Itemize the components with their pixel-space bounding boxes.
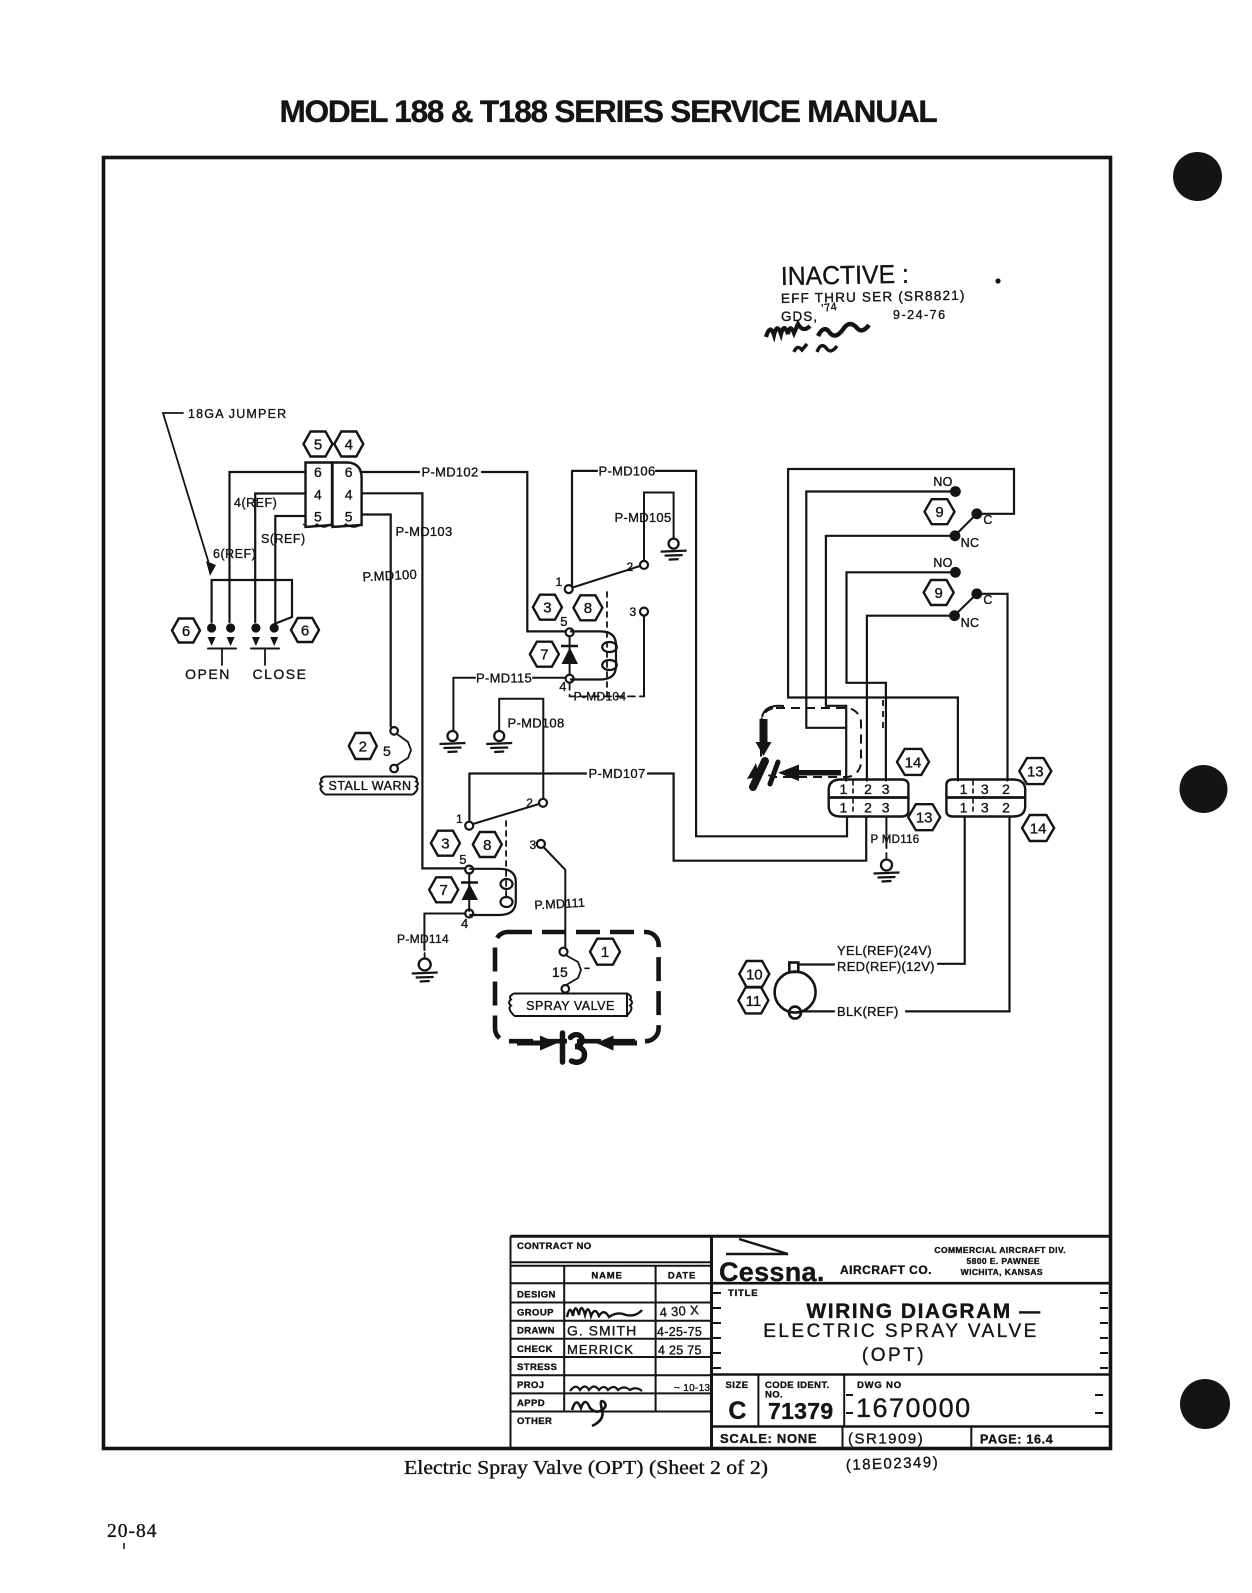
svg-text:C: C	[983, 593, 992, 607]
wire P-MD103	[362, 493, 465, 868]
svg-text:DRAWN: DRAWN	[517, 1326, 555, 1337]
svg-text:1: 1	[960, 800, 968, 816]
wire BLK seg a	[801, 1010, 834, 1012]
stall warn lower terminal	[390, 765, 398, 773]
svg-text:P.MD111: P.MD111	[534, 896, 585, 913]
main diagram border frame	[104, 158, 1111, 1449]
svg-text:4 30 X: 4 30 X	[659, 1302, 699, 1320]
svg-text:S(REF): S(REF)	[261, 532, 306, 546]
connector J2 right double row	[946, 780, 1025, 817]
svg-text:14: 14	[1030, 820, 1047, 837]
svg-text:1: 1	[840, 800, 848, 816]
upper switch blade	[573, 566, 641, 588]
ground P-MD105	[661, 539, 687, 560]
svg-text:3: 3	[530, 838, 537, 852]
wire C bottom to connector	[981, 594, 1008, 781]
wire RED seg a	[798, 963, 834, 965]
svg-text:G. SMITH: G. SMITH	[567, 1323, 637, 1339]
svg-text:CLOSE: CLOSE	[253, 666, 308, 682]
callout hex 7 lower	[429, 877, 458, 902]
svg-text:GDS,: GDS,	[781, 309, 818, 324]
callout hex 10	[739, 961, 769, 987]
svg-text:3: 3	[441, 836, 449, 853]
wire P-MD102 segment b	[482, 472, 565, 631]
wire P-MD106 seg a	[573, 470, 597, 472]
wire P-MD111	[544, 847, 566, 948]
contact arrow 2	[227, 637, 235, 646]
wire P-MD114 horizontal	[424, 913, 465, 915]
svg-text:CONTRACT NO: CONTRACT NO	[517, 1241, 592, 1252]
ground P-MD115	[440, 731, 466, 752]
svg-text:P.MD100: P.MD100	[362, 567, 417, 585]
svg-text:NC: NC	[961, 536, 980, 550]
wire P-MD108 ground riser	[499, 699, 543, 799]
OPEN contact stem	[221, 649, 223, 666]
svg-text:P-MD114: P-MD114	[397, 932, 449, 946]
svg-text:EFF THRU SER (SR8821): EFF THRU SER (SR8821)	[781, 288, 966, 306]
limit switch 1 NO contact	[950, 486, 961, 497]
svg-text:SIZE: SIZE	[725, 1380, 748, 1391]
punch hole dot middle	[1180, 765, 1228, 813]
svg-text:4: 4	[314, 487, 322, 503]
svg-text:COMMERCIAL AIRCRAFT DIV.: COMMERCIAL AIRCRAFT DIV.	[934, 1245, 1066, 1255]
svg-text:DWG NO: DWG NO	[857, 1380, 902, 1391]
svg-text:11: 11	[746, 993, 762, 1010]
switch contact dot 2	[226, 623, 235, 632]
spray valve switch arc	[567, 956, 582, 985]
svg-text:ELECTRIC SPRAY VALVE: ELECTRIC SPRAY VALVE	[763, 1321, 1039, 1342]
actuator curved arrow	[756, 706, 785, 756]
leader arrowhead	[206, 561, 216, 576]
svg-text:3: 3	[630, 605, 637, 619]
CLOSE contact stem	[264, 649, 266, 666]
callout hex 5	[304, 432, 333, 457]
contact arrow 3	[252, 637, 260, 646]
callout hex 13 left	[908, 804, 940, 830]
connector J1 pin1 separator	[852, 781, 854, 796]
svg-text:YEL(REF)(24V): YEL(REF)(24V)	[837, 943, 932, 958]
svg-text:P-MD106: P-MD106	[598, 464, 655, 479]
wire P-MD115 to ground	[452, 678, 454, 731]
contact arrow 1	[208, 637, 216, 646]
svg-text:6: 6	[182, 623, 190, 640]
callout hex 8 lower	[473, 832, 502, 857]
wire contact1 riser lower	[468, 774, 470, 822]
connector J2 pin1 separator lower	[972, 799, 974, 815]
svg-text:8: 8	[483, 837, 491, 854]
svg-text:(18E02349): (18E02349)	[846, 1454, 940, 1474]
svg-text:5: 5	[383, 743, 391, 759]
svg-text:1670000: 1670000	[856, 1393, 972, 1423]
svg-text:STALL WARN: STALL WARN	[328, 779, 411, 793]
svg-text:5: 5	[314, 509, 322, 525]
NC bottom drop	[866, 616, 868, 781]
svg-text:5: 5	[560, 614, 568, 629]
svg-text:7: 7	[440, 882, 448, 899]
svg-text:7: 7	[540, 647, 548, 664]
title cell edge ticks	[713, 1293, 1108, 1368]
wire P-MD107 seg a	[469, 772, 586, 774]
wire P-MD100	[362, 515, 391, 727]
upper mech link dashed	[606, 592, 608, 697]
svg-text:NC: NC	[961, 616, 980, 630]
callout hex 4	[334, 432, 363, 457]
svg-text:4: 4	[345, 436, 353, 453]
svg-text:6: 6	[345, 464, 353, 480]
wire P-MD115 seg b	[533, 677, 566, 679]
callout hex 7 upper	[530, 642, 559, 667]
svg-text:DESIGN: DESIGN	[517, 1289, 556, 1300]
contact arrow 4	[270, 637, 278, 646]
svg-text:4(REF): 4(REF)	[234, 496, 277, 510]
upper relay pin 5	[566, 628, 574, 636]
lower relay pin 4	[465, 910, 473, 918]
switch contact dot 1	[207, 623, 216, 632]
sheet arrow left pointing right	[517, 1036, 558, 1051]
svg-text:9: 9	[935, 504, 943, 521]
top loop left drop	[787, 469, 789, 698]
svg-text:P-MD107: P-MD107	[588, 766, 645, 781]
lower switch contact 1	[465, 822, 473, 830]
wire P-MD104 dashed	[570, 683, 644, 697]
sheet arrow right pointing left	[596, 1036, 637, 1051]
svg-text:10: 10	[746, 966, 763, 983]
upper contact 3	[640, 608, 648, 616]
NO top drop	[806, 492, 846, 728]
svg-text:TITLE: TITLE	[728, 1288, 758, 1299]
limit switch 2 blade	[957, 597, 975, 614]
SPRAY VALVE banner	[509, 994, 632, 1017]
ground P-MD114	[412, 959, 438, 982]
actuator pointer arrow	[778, 765, 841, 782]
jumper connector block	[303, 463, 362, 528]
wire from upper contact 3	[643, 616, 645, 697]
svg-text:P-MD103: P-MD103	[395, 524, 452, 539]
svg-text:13: 13	[916, 810, 933, 827]
callout hex 9 top	[925, 499, 955, 524]
P-MD114 gap dash	[424, 953, 426, 958]
ground P-MD116	[874, 860, 900, 882]
svg-text:6: 6	[314, 464, 322, 480]
connector J1 left double row	[829, 780, 909, 817]
svg-text:1: 1	[556, 575, 563, 589]
switch contact dot 4	[270, 623, 279, 632]
svg-text:13: 13	[1027, 764, 1044, 781]
svg-text:9: 9	[935, 585, 943, 602]
spray valve pin terminal	[560, 948, 568, 956]
svg-text:WIRING DIAGRAM —: WIRING DIAGRAM —	[806, 1300, 1041, 1323]
P-MD116 gap dash	[885, 853, 887, 858]
svg-text:Electric Spray Valve (OPT) (Sh: Electric Spray Valve (OPT) (Sheet 2 of 2…	[404, 1458, 768, 1479]
svg-text:’74: ’74	[821, 301, 838, 315]
svg-text:4: 4	[345, 487, 353, 503]
svg-text:Cessna.: Cessna.	[719, 1257, 825, 1287]
svg-text:P-MD108: P-MD108	[507, 716, 564, 731]
svg-text:NO: NO	[933, 475, 952, 489]
hex1 leader dash	[585, 967, 592, 969]
svg-text:3: 3	[981, 781, 989, 797]
svg-text:STRESS: STRESS	[517, 1362, 557, 1373]
svg-text:5: 5	[459, 852, 467, 867]
svg-text:(OPT): (OPT)	[862, 1345, 926, 1366]
svg-text:OPEN: OPEN	[185, 666, 231, 682]
svg-text:P-MD104: P-MD104	[574, 690, 627, 704]
wire P-MD106 drop to contact 1	[571, 471, 573, 585]
stall warn blade arc	[397, 734, 411, 765]
svg-text:(SR1909): (SR1909)	[848, 1431, 924, 1448]
svg-text:3: 3	[981, 800, 989, 816]
svg-text:MERRICK: MERRICK	[567, 1342, 634, 1357]
wire pin6 left to OPEN switch	[230, 472, 306, 622]
svg-text:P-MD105: P-MD105	[614, 510, 671, 525]
wire P-MD106 seg b	[656, 471, 847, 836]
wire BLK seg b	[906, 818, 1010, 1012]
diode CR1 upper	[561, 646, 578, 664]
svg-text:6: 6	[301, 622, 309, 639]
svg-text:NO: NO	[933, 556, 952, 570]
spray valve enclosure dashed box	[495, 932, 659, 1041]
svg-text:SCALE: NONE: SCALE: NONE	[720, 1431, 817, 1446]
svg-text:20-84: 20-84	[107, 1521, 158, 1542]
svg-text:2: 2	[864, 781, 872, 797]
stall warn upper terminal	[390, 727, 398, 735]
callout hex 11	[738, 987, 768, 1013]
sheet reference number 13	[563, 1033, 585, 1062]
limit switch 2 NC contact	[949, 610, 960, 621]
wire P-MD115 seg a	[453, 677, 475, 679]
callout hex 6 right	[291, 618, 319, 642]
ground P-MD108	[486, 731, 512, 752]
limit switch 1 C contact	[971, 508, 982, 519]
svg-text:GROUP: GROUP	[517, 1308, 554, 1319]
svg-text:2: 2	[1002, 800, 1010, 816]
svg-text:P MD116: P MD116	[871, 834, 920, 846]
svg-text:OTHER: OTHER	[517, 1416, 552, 1427]
svg-text:PROJ: PROJ	[517, 1380, 544, 1391]
appd signature scribble	[572, 1401, 606, 1426]
limit switch 1 blade	[957, 517, 974, 534]
svg-text:4: 4	[461, 916, 469, 931]
svg-text:15: 15	[552, 964, 568, 980]
svg-text:2: 2	[627, 560, 634, 574]
svg-text:SPRAY VALVE: SPRAY VALVE	[526, 999, 615, 1013]
wire P-MD102 segment a	[362, 471, 419, 473]
lower relay coil wire	[468, 873, 470, 911]
phantom edge dashes	[882, 700, 884, 732]
lower mech link dashed	[505, 821, 507, 900]
wire pin5 left S(REF)	[275, 516, 305, 622]
callout hex 1 spray valve	[590, 939, 620, 965]
punch hole dot bottom	[1180, 1379, 1230, 1429]
wire NC top	[826, 535, 950, 537]
lower contact 3	[537, 840, 545, 848]
svg-text:C: C	[983, 513, 992, 527]
CLOSE contact bar	[251, 648, 279, 650]
svg-text:14: 14	[905, 754, 922, 771]
wire RED seg b	[938, 818, 965, 964]
proj signature scribble	[570, 1387, 642, 1392]
svg-text:8: 8	[584, 600, 592, 617]
svg-text:5: 5	[314, 436, 322, 453]
dwg cell ticks	[846, 1395, 1103, 1413]
callout hex 8 upper	[573, 595, 602, 620]
svg-text:INACTIVE :: INACTIVE :	[781, 259, 910, 291]
upper relay pin 4	[566, 675, 574, 683]
svg-text:5800 E. PAWNEE: 5800 E. PAWNEE	[967, 1256, 1040, 1266]
page number tick	[123, 1543, 125, 1549]
spray valve lower terminal	[562, 985, 570, 993]
svg-text:9-24-76: 9-24-76	[893, 308, 947, 322]
switch contact dot 3	[251, 623, 260, 632]
upper relay coil wire	[569, 636, 571, 675]
svg-text:P-MD102: P-MD102	[421, 465, 478, 480]
callout hex 3 upper	[533, 595, 562, 620]
svg-text:1: 1	[960, 781, 968, 797]
limit switch 2 C contact	[971, 588, 982, 599]
diode CR2 lower	[461, 883, 478, 901]
upper switch contact 2	[640, 561, 648, 569]
wire P-MD116	[885, 818, 887, 849]
jumper bus bar	[212, 580, 292, 624]
svg-text:PAGE: 16.4: PAGE: 16.4	[980, 1433, 1053, 1447]
callout hex 2 stall warn	[349, 733, 377, 759]
svg-text:C: C	[728, 1397, 746, 1425]
STALL WARN banner	[320, 777, 418, 795]
callout hex 3 lower	[431, 831, 460, 856]
svg-text:~ 10-13: ~ 10-13	[674, 1383, 710, 1394]
top loop wire to C contact	[788, 469, 1014, 514]
wire pin4 left to CLOSE switch	[255, 494, 305, 623]
svg-text:4 25 75: 4 25 75	[658, 1344, 702, 1358]
group signature scribble	[567, 1308, 642, 1317]
wire NO bottom	[847, 571, 951, 573]
title block grid	[511, 1236, 1111, 1448]
NO bottom drop	[847, 572, 886, 780]
connector J2 pin1 separator	[972, 781, 974, 796]
svg-text:P-MD115: P-MD115	[476, 671, 532, 686]
Cessna logo swoosh	[726, 1239, 788, 1254]
lower switch blade	[473, 804, 539, 824]
svg-text:2: 2	[864, 800, 872, 816]
svg-text:5: 5	[345, 509, 353, 525]
upper relay K1 body	[570, 631, 617, 679]
svg-text:6(REF): 6(REF)	[213, 547, 256, 561]
callout hex 14 left	[897, 749, 929, 775]
limit switch 1 NC contact	[950, 530, 961, 541]
svg-text:BLK(REF): BLK(REF)	[837, 1004, 899, 1019]
svg-text:71379: 71379	[768, 1398, 833, 1424]
lower relay pin 5	[465, 866, 473, 874]
callout hex 9 bottom	[924, 580, 954, 605]
motor B1	[775, 963, 816, 1019]
svg-text:1: 1	[840, 781, 848, 797]
pin1 feeder vertical	[845, 706, 847, 781]
connector J1 pin1 separator lower	[852, 799, 854, 815]
OPEN contact bar	[208, 648, 236, 650]
wire P-MD114 drop	[423, 914, 425, 951]
svg-text:APPD: APPD	[517, 1398, 545, 1409]
svg-text:DATE: DATE	[668, 1271, 696, 1282]
handwritten signature scribble	[766, 324, 869, 352]
svg-text:4: 4	[559, 679, 567, 694]
lower relay K2 body	[469, 869, 516, 915]
leader line 18GA jumper	[163, 413, 210, 567]
wire NO top	[806, 490, 950, 492]
svg-text:3: 3	[882, 781, 890, 797]
wire P-MD107 seg b	[648, 774, 866, 861]
svg-text:18GA JUMPER: 18GA JUMPER	[188, 407, 287, 421]
lower switch contact 2	[539, 799, 547, 807]
actuator position slash marks	[747, 761, 778, 787]
wire NC bottom	[867, 615, 949, 617]
callout hex 14 right	[1022, 815, 1054, 841]
punch hole dot top	[1173, 152, 1222, 201]
wire P-MD105	[644, 493, 674, 562]
svg-text:1: 1	[601, 944, 609, 961]
callout hex 13 right	[1019, 758, 1051, 784]
NC top drop	[826, 536, 846, 706]
actuator phantom outline	[761, 708, 861, 777]
bus drop to first contact	[211, 580, 213, 622]
limit switch 2 NO contact	[950, 567, 961, 578]
svg-text:3: 3	[543, 600, 551, 617]
upper switch contact 1	[565, 585, 573, 593]
svg-text:1: 1	[456, 812, 463, 826]
svg-text:3: 3	[882, 800, 890, 816]
svg-text:2: 2	[1002, 781, 1010, 797]
svg-text:AIRCRAFT CO.: AIRCRAFT CO.	[840, 1263, 932, 1277]
svg-text:2: 2	[359, 738, 367, 755]
svg-text:NAME: NAME	[591, 1271, 622, 1282]
stray ink dot	[995, 278, 1000, 283]
callout hex 6 left	[172, 619, 200, 643]
svg-text:MODEL 188 & T188 SERIES SERVIC: MODEL 188 & T188 SERIES SERVICE MANUAL	[280, 93, 938, 129]
loop jog to right connector	[788, 698, 958, 781]
svg-text:WICHITA, KANSAS: WICHITA, KANSAS	[961, 1267, 1043, 1277]
svg-text:RED(REF)(12V): RED(REF)(12V)	[837, 959, 935, 974]
svg-text:CHECK: CHECK	[517, 1344, 553, 1355]
svg-text:4-25-75: 4-25-75	[657, 1325, 702, 1339]
